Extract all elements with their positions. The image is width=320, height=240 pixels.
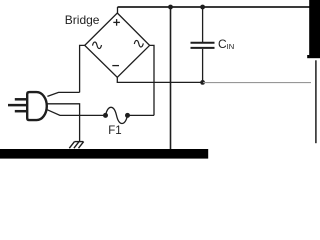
capacitor CIN plates [191, 42, 215, 44]
wire top bus [118, 6, 311, 8]
cropped block top right [309, 0, 320, 58]
wire vertical rail [170, 7, 172, 150]
plug prong 3 [15, 110, 27, 113]
wire left stub [80, 45, 85, 92]
wire bridge top stub [117, 7, 119, 14]
wire plug middle to ground [47, 104, 80, 141]
bridge rectifier diamond [85, 13, 150, 77]
junction dot fuse left [103, 113, 108, 118]
svg-text:Bridge: Bridge [65, 13, 100, 27]
ground [69, 142, 83, 149]
junction dot fuse right [125, 113, 130, 118]
wire right stub [150, 45, 154, 115]
AC plug body [27, 92, 47, 120]
capacitor CIN top lead [202, 7, 204, 42]
bridge minus mark [112, 65, 119, 67]
svg-text:F1: F1 [108, 125, 121, 137]
bridge AC sine right [134, 40, 143, 47]
wire bridge bottom stub [117, 77, 202, 82]
cropped vertical lead right [315, 60, 317, 143]
junction dot cap bottom [200, 80, 205, 85]
wire plug line1 to bridge left [47, 92, 79, 96]
faded wire to load (gray) [203, 82, 311, 84]
wire fuse to bridge right [128, 114, 155, 116]
cropped bus bar bottom [0, 149, 208, 159]
capacitor CIN bottom lead [202, 49, 204, 83]
cropped block foot [307, 55, 309, 58]
svg-text:CIN: CIN [218, 37, 234, 51]
junction dot cap top [200, 5, 205, 10]
fuse F1 element [106, 107, 128, 123]
plug prong 1 [15, 98, 27, 101]
wire plug line2 to fuse [47, 110, 105, 116]
plug prong 2 [8, 104, 27, 107]
bridge plus mark [113, 19, 120, 26]
junction dot top rail [168, 5, 173, 10]
bridge AC sine left [93, 42, 102, 49]
